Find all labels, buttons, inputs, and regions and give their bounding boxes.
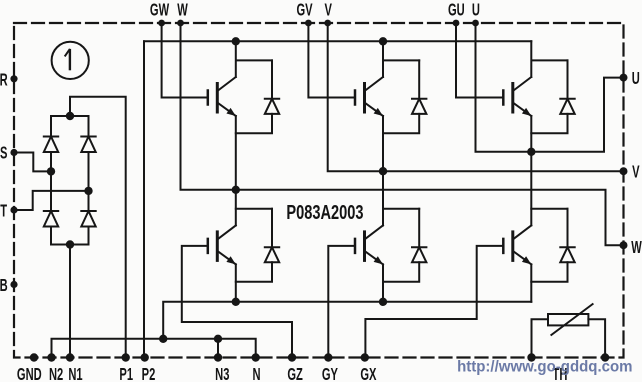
node U top terminal bbox=[472, 20, 479, 27]
wire GV gate feed bbox=[308, 23, 355, 98]
transistor Q6 (U-phase lower IGBT) bbox=[503, 209, 567, 302]
junction bridge top bbox=[66, 112, 74, 120]
wire N2/N3/N bottom link bbox=[52, 339, 256, 358]
svg-text:N1: N1 bbox=[68, 364, 82, 382]
svg-text:V: V bbox=[324, 0, 331, 20]
svg-text:U: U bbox=[632, 69, 640, 89]
junction V phase line bbox=[379, 167, 387, 175]
diode D5 (W upper freewheel) bbox=[236, 60, 279, 133]
wire N3 drop bbox=[217, 339, 219, 358]
node V output terminal bbox=[620, 167, 628, 175]
diode D4 (bridge lower-right) bbox=[81, 210, 95, 212]
wire U top-terminal to U phase line bbox=[476, 23, 532, 152]
bridge bottom rail bbox=[51, 244, 89, 246]
svg-text:GY: GY bbox=[322, 364, 338, 382]
transistor Q3 (U-phase upper IGBT) bbox=[503, 41, 567, 225]
diode D6 (V upper freewheel) bbox=[383, 60, 426, 133]
svg-text:V: V bbox=[632, 162, 639, 182]
node GY terminal bbox=[324, 353, 332, 361]
transistor Q5 (V-phase lower IGBT) bbox=[355, 209, 419, 302]
node N2 terminal bbox=[47, 353, 55, 361]
junction U phase line bbox=[527, 148, 535, 156]
node B terminal bbox=[10, 281, 17, 288]
label 1 (circle) bbox=[65, 49, 70, 70]
wire GW gate feed bbox=[162, 23, 208, 98]
P bus (top collector bus) bbox=[144, 40, 531, 42]
node GX terminal bbox=[361, 353, 369, 361]
diode D9 (V lower freewheel) bbox=[383, 209, 426, 282]
diode D2 (bridge upper-right) bbox=[81, 136, 95, 138]
node W output terminal bbox=[620, 241, 628, 249]
transistor Q1 (W-phase upper IGBT) bbox=[208, 41, 272, 225]
diode D3 (bridge lower-left) bbox=[44, 210, 58, 212]
node U output terminal bbox=[620, 74, 628, 82]
wire GU gate feed bbox=[456, 23, 503, 98]
node GW terminal bbox=[158, 20, 165, 27]
svg-text:http://www.go-gddq.com: http://www.go-gddq.com bbox=[457, 358, 632, 375]
junction W phase line bbox=[232, 186, 240, 194]
node W top terminal bbox=[177, 20, 184, 27]
node GU terminal bbox=[453, 20, 460, 27]
wire P2 vertical bbox=[143, 41, 145, 357]
junction N bus / Q5 emitter bbox=[379, 298, 387, 306]
node N3 terminal bbox=[214, 353, 222, 361]
diode D7 (U upper freewheel) bbox=[531, 60, 574, 133]
wire T input bbox=[14, 191, 89, 210]
svg-text:GW: GW bbox=[150, 0, 170, 20]
transistor Q4 (W-phase lower IGBT) bbox=[208, 209, 272, 302]
svg-text:P2: P2 bbox=[142, 364, 156, 382]
svg-text:P083A2003: P083A2003 bbox=[286, 201, 363, 224]
node V top terminal bbox=[324, 20, 331, 27]
wire V top-terminal to V phase line bbox=[328, 23, 624, 171]
svg-text:U: U bbox=[472, 0, 480, 20]
svg-text:R: R bbox=[0, 70, 8, 90]
svg-text:GX: GX bbox=[360, 364, 376, 382]
svg-text:T: T bbox=[0, 201, 7, 221]
svg-text:W: W bbox=[177, 0, 188, 20]
node GND terminal bbox=[30, 353, 38, 361]
svg-text:GU: GU bbox=[448, 0, 465, 20]
wire U phase line right segment bbox=[531, 78, 623, 152]
wire W top-terminal to W phase line bbox=[181, 23, 624, 245]
junction N bus / Q4 emitter bbox=[232, 298, 240, 306]
transistor Q2 (V-phase upper IGBT) bbox=[355, 41, 419, 225]
node P2 terminal bbox=[141, 353, 149, 361]
junction S on bridge leg bbox=[47, 167, 55, 175]
junction P bus / Q2 collector bbox=[379, 37, 387, 45]
svg-text:GZ: GZ bbox=[287, 364, 302, 382]
wire GZ gate feed bbox=[182, 246, 292, 358]
junction N3 tap bbox=[214, 335, 222, 343]
node TH right terminal bbox=[601, 353, 609, 361]
svg-text:N3: N3 bbox=[215, 364, 229, 382]
node N1 terminal bbox=[66, 353, 74, 361]
rectifier bridge right leg bbox=[88, 116, 90, 245]
svg-text:N: N bbox=[252, 364, 260, 382]
diode D10 (U lower freewheel) bbox=[531, 209, 574, 282]
bridge top rail bbox=[51, 115, 89, 117]
node GV terminal bbox=[305, 20, 312, 27]
node S terminal bbox=[10, 149, 17, 156]
junction bridge bottom bbox=[66, 240, 74, 248]
wire N1 from bridge bottom bbox=[69, 245, 71, 358]
junction N bus drop bbox=[159, 335, 167, 343]
node N terminal bbox=[252, 353, 260, 361]
N bus (emitter bus) bbox=[163, 302, 531, 339]
diode D8 (W lower freewheel) bbox=[236, 209, 279, 282]
junction P bus / Q1 collector bbox=[232, 37, 240, 45]
wire GY gate feed bbox=[328, 246, 355, 358]
svg-text:S: S bbox=[0, 143, 7, 163]
circle marker 1 bbox=[52, 42, 89, 79]
wire GX gate feed bbox=[365, 246, 503, 358]
node P1 terminal bbox=[122, 353, 130, 361]
wire P1 from bridge top bbox=[70, 97, 126, 358]
junction T on bridge leg bbox=[84, 187, 92, 195]
node TH left terminal bbox=[527, 353, 535, 361]
svg-text:N2: N2 bbox=[49, 364, 63, 382]
node GZ terminal bbox=[288, 353, 296, 361]
svg-text:W: W bbox=[631, 237, 642, 257]
svg-text:P1: P1 bbox=[119, 364, 133, 382]
svg-text:GV: GV bbox=[296, 0, 312, 20]
node T terminal bbox=[10, 206, 17, 213]
thermistor TH bbox=[532, 304, 606, 357]
diode D1 (bridge upper-left) bbox=[44, 136, 58, 138]
svg-text:B: B bbox=[0, 275, 8, 295]
svg-text:GND: GND bbox=[17, 364, 42, 382]
rectifier bridge left leg bbox=[50, 116, 52, 245]
wire S input bbox=[14, 153, 51, 172]
node R terminal bbox=[10, 75, 17, 82]
